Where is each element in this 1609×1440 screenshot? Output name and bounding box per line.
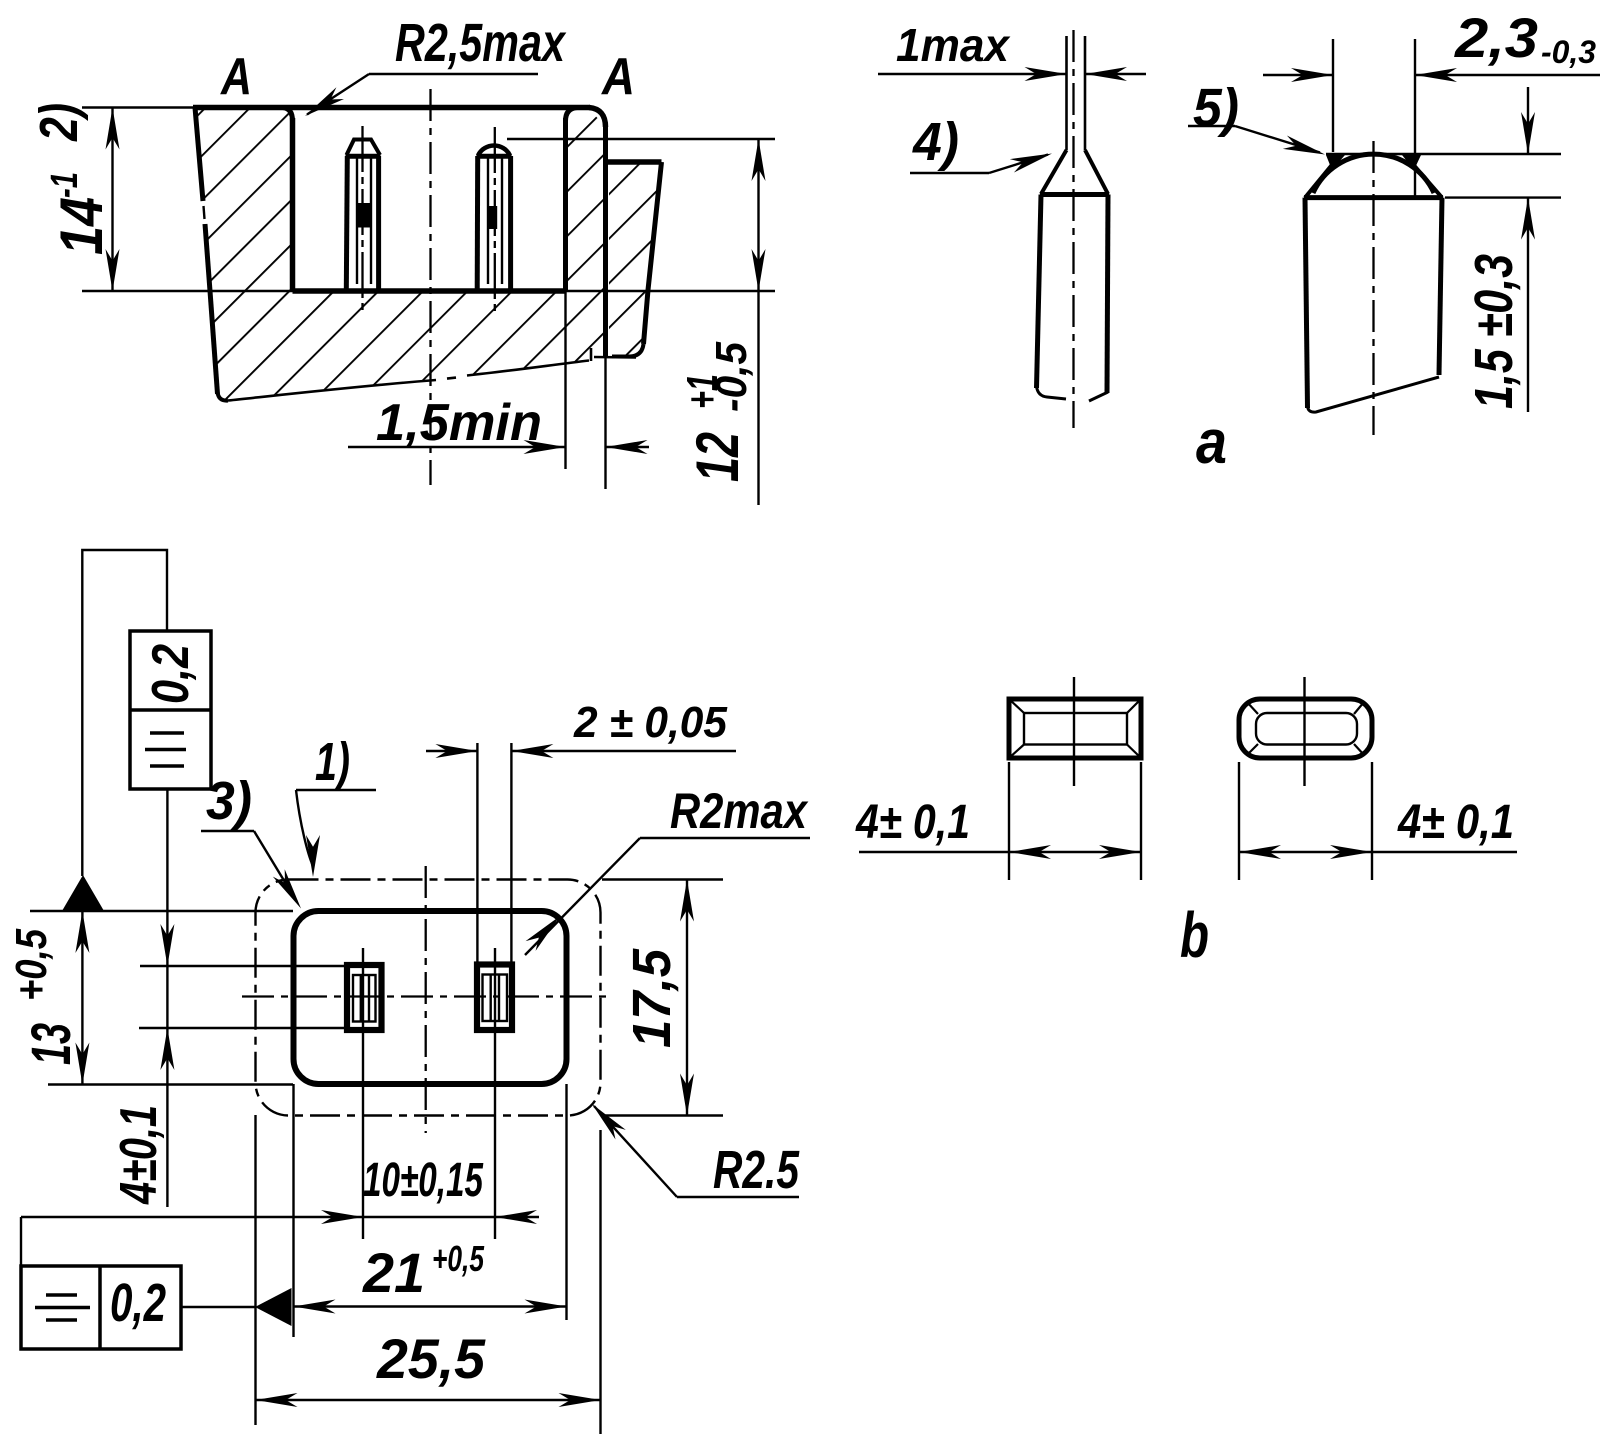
svg-text:10±0,15: 10±0,15: [363, 1154, 484, 1207]
svg-text:2 ± 0,05: 2 ± 0,05: [573, 698, 727, 747]
svg-text:4± 0,1: 4± 0,1: [1397, 796, 1514, 849]
svg-text:-0,3: -0,3: [1541, 34, 1596, 70]
svg-text:R2max: R2max: [670, 783, 809, 839]
svg-text:-1: -1: [44, 172, 86, 198]
svg-text:21: 21: [362, 1241, 425, 1304]
svg-text:12: 12: [684, 432, 751, 482]
svg-text:1): 1): [315, 732, 350, 792]
svg-text:1,5min: 1,5min: [376, 394, 542, 452]
svg-text:14: 14: [48, 197, 115, 255]
svg-text:+0,5: +0,5: [432, 1238, 485, 1279]
svg-text:a: a: [1196, 408, 1227, 477]
svg-text:13: 13: [19, 1023, 82, 1065]
svg-text:b: b: [1180, 899, 1209, 971]
svg-text:R2.5: R2.5: [713, 1140, 800, 1200]
svg-text:4±0,1: 4±0,1: [110, 1105, 168, 1205]
svg-text:-0,5: -0,5: [707, 342, 756, 412]
svg-text:A: A: [600, 48, 635, 106]
svg-text:2): 2): [29, 103, 89, 142]
svg-text:1,5 ±0,3: 1,5 ±0,3: [1464, 254, 1524, 409]
svg-text:1max: 1max: [896, 19, 1011, 71]
svg-text:2,3: 2,3: [1454, 6, 1538, 69]
svg-text:+0,5: +0,5: [7, 929, 56, 1001]
svg-text:4): 4): [912, 112, 959, 172]
svg-text:A: A: [219, 48, 252, 106]
svg-text:4± 0,1: 4± 0,1: [855, 796, 970, 849]
svg-text:17,5: 17,5: [622, 948, 682, 1048]
svg-text:5): 5): [1193, 78, 1239, 138]
svg-text:0,2: 0,2: [110, 1273, 166, 1333]
svg-text:0,2: 0,2: [142, 644, 200, 704]
svg-text:3): 3): [206, 771, 252, 831]
svg-text:25,5: 25,5: [376, 1327, 486, 1390]
svg-text:R2,5max: R2,5max: [395, 13, 566, 73]
